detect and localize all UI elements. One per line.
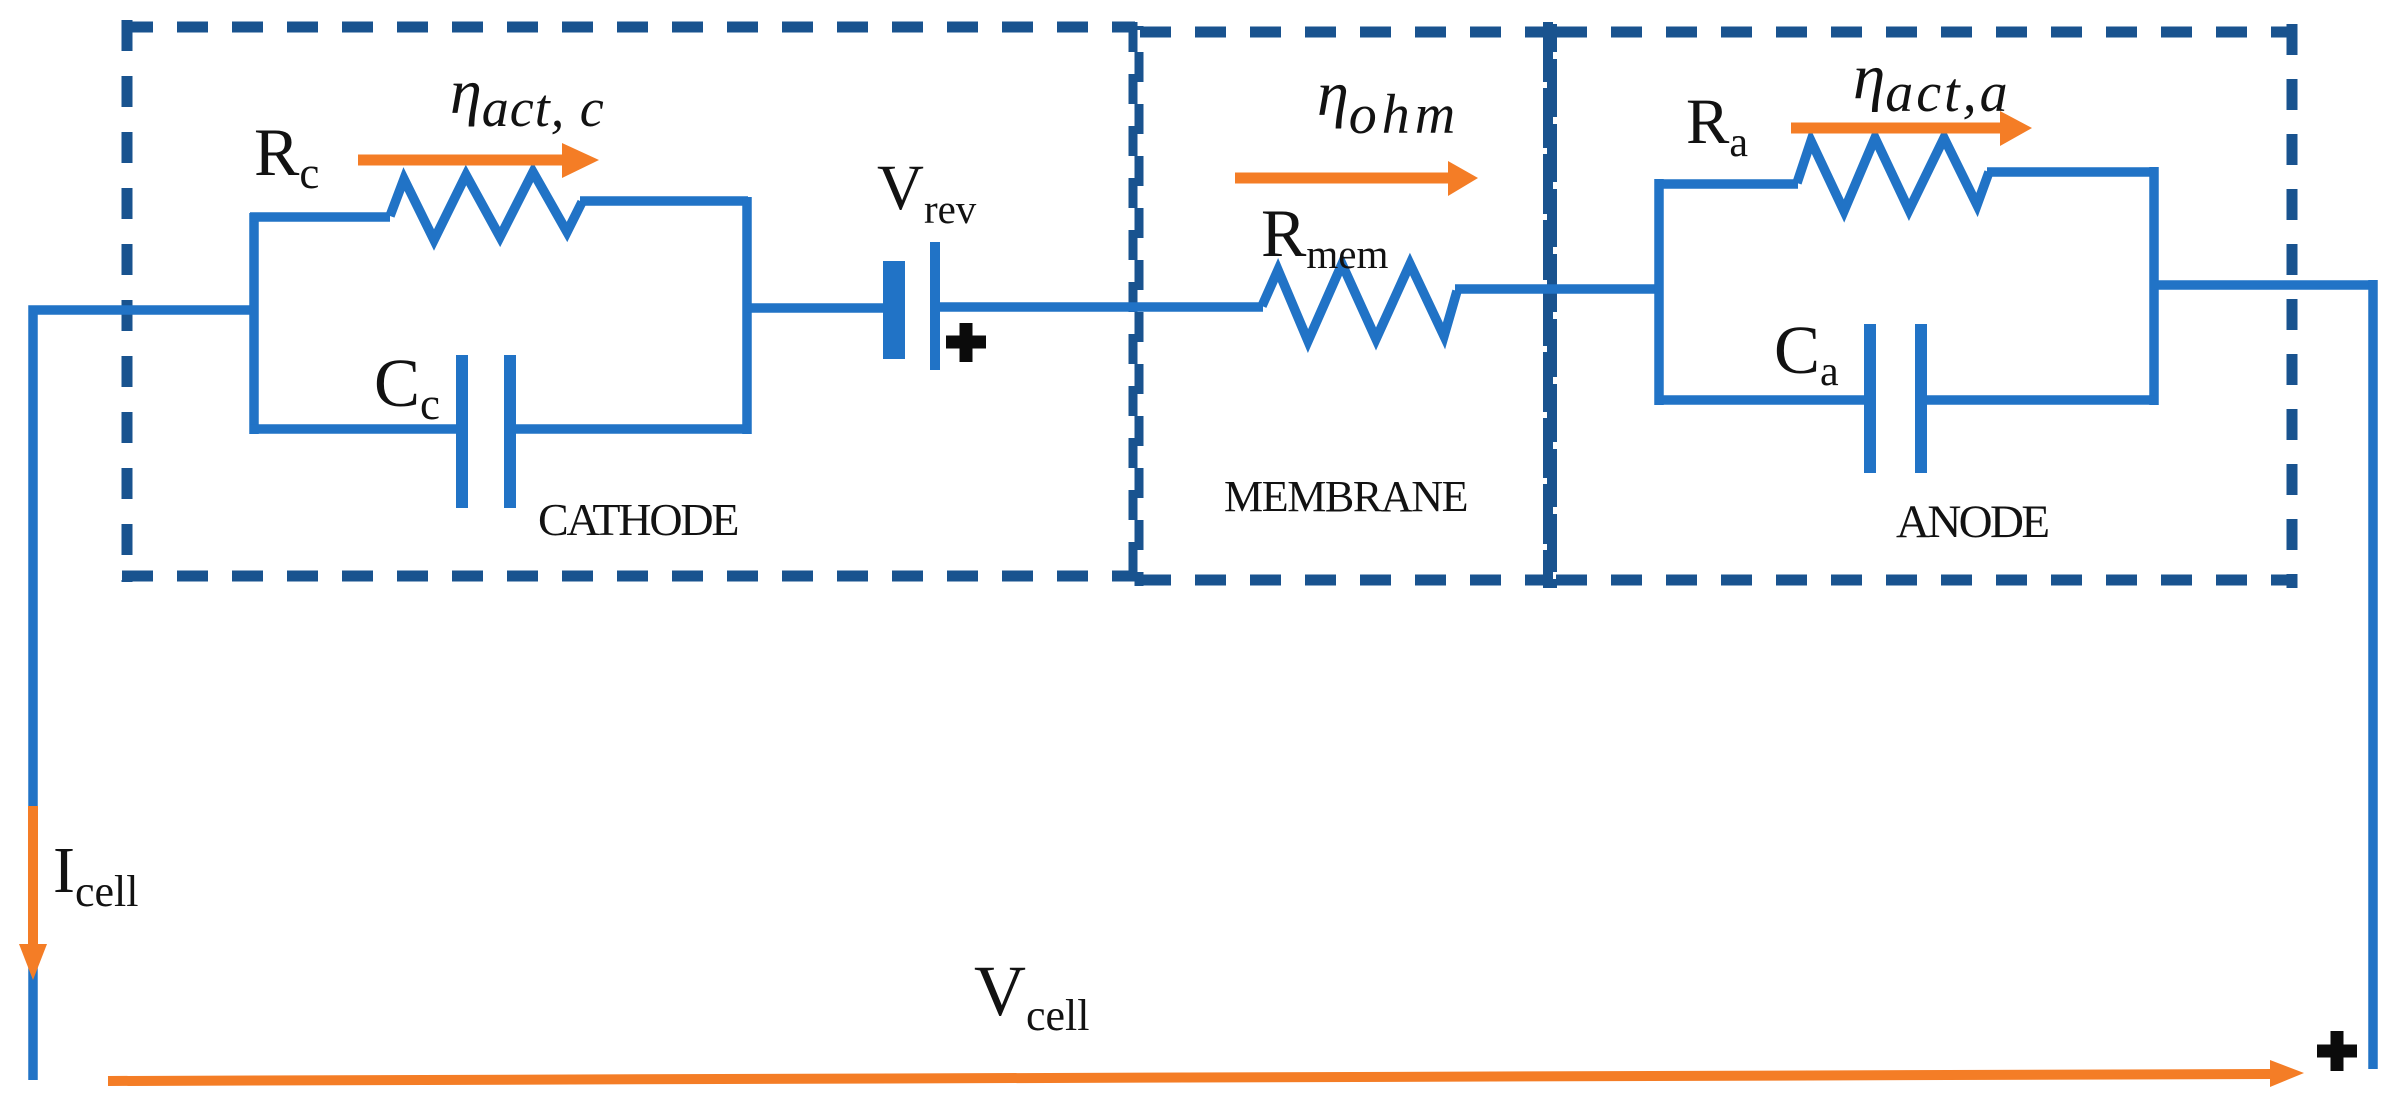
svg-text:MEMBRANE: MEMBRANE	[1224, 472, 1467, 521]
svg-text:CATHODE: CATHODE	[538, 494, 737, 545]
svg-text:ANODE: ANODE	[1896, 496, 2048, 548]
svg-text:Ra: Ra	[1686, 86, 1748, 166]
svg-text:Rc: Rc	[254, 114, 319, 198]
svg-text:ηohm: ηohm	[1317, 58, 1460, 146]
svg-text:Rmem: Rmem	[1261, 195, 1388, 277]
svg-text:Vcell: Vcell	[974, 951, 1090, 1040]
svg-text:ηact,a: ηact,a	[1853, 41, 2011, 124]
svg-text:Cc: Cc	[374, 345, 440, 429]
svg-text:Icell: Icell	[53, 834, 139, 916]
svg-text:Vrev: Vrev	[877, 152, 977, 232]
svg-text:ηact, c: ηact, c	[450, 56, 605, 138]
svg-text:Ca: Ca	[1774, 312, 1839, 395]
